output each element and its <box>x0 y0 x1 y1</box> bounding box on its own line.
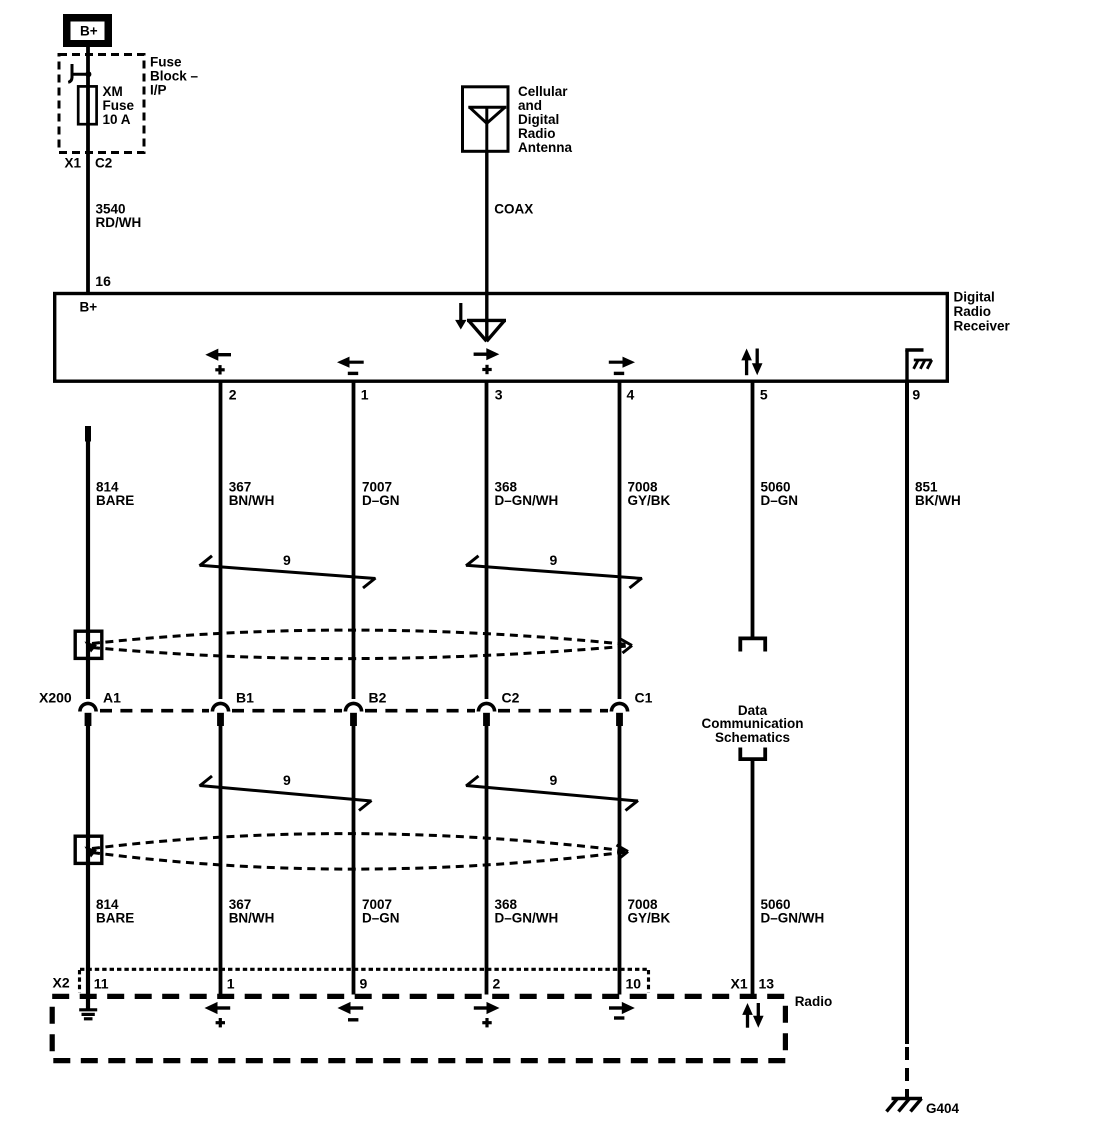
svg-text:RD/WH: RD/WH <box>96 215 142 230</box>
svg-text:9: 9 <box>360 976 368 992</box>
svg-text:BARE: BARE <box>96 493 134 508</box>
svg-text:X1: X1 <box>731 976 748 992</box>
svg-text:BN/WH: BN/WH <box>229 911 275 926</box>
svg-text:B1: B1 <box>236 690 254 706</box>
svg-text:10: 10 <box>626 976 642 992</box>
svg-text:B+: B+ <box>80 24 98 39</box>
svg-text:B2: B2 <box>369 690 387 706</box>
svg-text:G404: G404 <box>926 1101 960 1116</box>
svg-text:9: 9 <box>283 552 291 568</box>
svg-text:Radio: Radio <box>518 126 556 141</box>
svg-text:Antenna: Antenna <box>518 140 572 155</box>
svg-text:D–GN/WH: D–GN/WH <box>495 911 559 926</box>
svg-text:GY/BK: GY/BK <box>628 911 671 926</box>
svg-text:5: 5 <box>760 387 768 403</box>
svg-text:Schematics: Schematics <box>715 730 790 745</box>
svg-text:D–GN: D–GN <box>761 493 799 508</box>
svg-text:1: 1 <box>227 976 235 992</box>
svg-text:9: 9 <box>550 552 558 568</box>
svg-text:BARE: BARE <box>96 911 134 926</box>
svg-text:BN/WH: BN/WH <box>229 493 275 508</box>
svg-text:9: 9 <box>283 772 291 788</box>
svg-text:D–GN/WH: D–GN/WH <box>495 493 559 508</box>
svg-text:11: 11 <box>94 976 109 992</box>
svg-text:and: and <box>518 98 542 113</box>
svg-text:X2: X2 <box>53 975 70 991</box>
svg-text:1: 1 <box>361 387 369 403</box>
svg-text:Radio: Radio <box>795 994 833 1009</box>
svg-text:Fuse: Fuse <box>150 55 182 70</box>
svg-text:X200: X200 <box>39 690 72 706</box>
svg-text:4: 4 <box>627 387 635 403</box>
svg-text:3: 3 <box>495 387 503 403</box>
svg-text:Digital: Digital <box>518 112 559 127</box>
svg-text:COAX: COAX <box>494 202 533 217</box>
svg-text:9: 9 <box>912 387 920 403</box>
svg-text:C2: C2 <box>502 690 520 706</box>
svg-text:Block –: Block – <box>150 69 199 84</box>
svg-text:Digital: Digital <box>954 290 995 305</box>
svg-text:GY/BK: GY/BK <box>628 493 671 508</box>
svg-text:B+: B+ <box>80 300 98 315</box>
svg-text:A1: A1 <box>103 690 121 706</box>
svg-text:Radio: Radio <box>954 304 992 319</box>
svg-text:9: 9 <box>550 772 558 788</box>
svg-text:2: 2 <box>493 976 501 992</box>
svg-text:BK/WH: BK/WH <box>915 493 961 508</box>
svg-text:C1: C1 <box>635 690 653 706</box>
svg-text:D–GN/WH: D–GN/WH <box>761 911 825 926</box>
svg-text:C2: C2 <box>95 156 112 171</box>
svg-text:Fuse: Fuse <box>103 98 135 113</box>
svg-text:Receiver: Receiver <box>954 319 1011 334</box>
svg-text:10 A: 10 A <box>103 112 131 127</box>
svg-text:XM: XM <box>103 84 123 99</box>
svg-text:16: 16 <box>95 273 111 289</box>
svg-text:D–GN: D–GN <box>362 911 400 926</box>
svg-text:D–GN: D–GN <box>362 493 400 508</box>
svg-text:2: 2 <box>229 387 237 403</box>
svg-text:X1: X1 <box>65 156 82 171</box>
svg-text:13: 13 <box>759 976 775 992</box>
svg-text:I/P: I/P <box>150 83 167 98</box>
svg-text:Cellular: Cellular <box>518 84 568 99</box>
